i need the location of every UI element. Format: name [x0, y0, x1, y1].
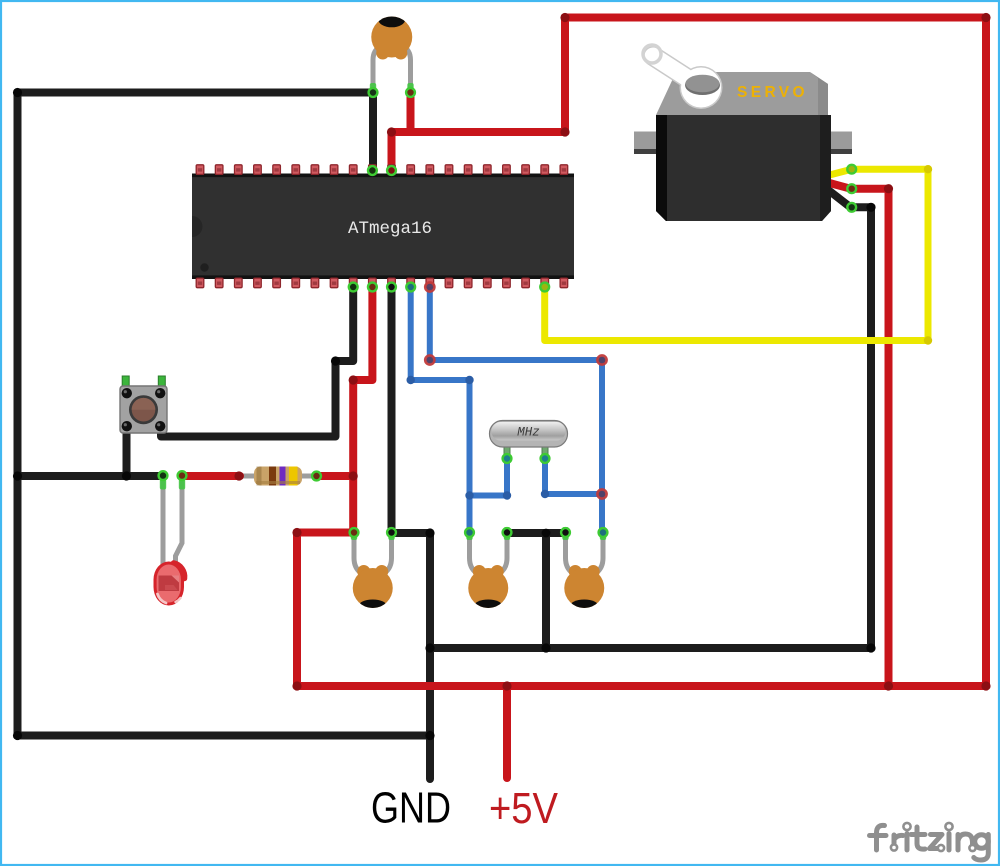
wire servo black	[430, 191, 871, 648]
wire GND left loop	[18, 93, 431, 736]
LED1 body	[154, 562, 185, 606]
wire button to IC pin	[161, 288, 353, 437]
capacitor C1 legs	[373, 46, 411, 93]
wire C3 C4 tee	[507, 529, 566, 537]
resistor R1 body	[254, 467, 302, 486]
capacitor C3 disc	[468, 565, 508, 614]
crystal Y1 legs	[504, 444, 548, 458]
wire crystal right branch	[545, 459, 602, 494]
wire IC pin VCC down	[353, 288, 372, 534]
wire +5V terminal	[503, 686, 511, 778]
wire +5V main loop	[297, 18, 986, 687]
wire resistor to +5V	[317, 472, 353, 480]
capacitor C4 legs	[566, 535, 604, 573]
wire XTAL1 blue	[411, 288, 470, 531]
IC U1 ATmega16 body	[192, 174, 574, 280]
wire crystal left branch	[470, 459, 508, 496]
LED1 legs	[163, 479, 182, 566]
svg-text:SERVO: SERVO	[737, 84, 808, 101]
IC U1 bottom pin row	[196, 278, 568, 288]
svg-text:+5V: +5V	[489, 784, 559, 833]
wire LED to resistor	[182, 472, 240, 480]
servo M1 horn	[643, 45, 723, 109]
capacitor C2 legs	[354, 535, 392, 573]
servo M1 right mounting tab	[820, 132, 852, 155]
servo M1 dark body	[656, 115, 831, 221]
pushbutton S1 body	[120, 386, 167, 433]
IC U1 top pin row	[196, 165, 568, 175]
svg-text:MHz: MHz	[517, 426, 540, 440]
servo M1 left mounting tab	[634, 132, 666, 155]
wire servo signal yellow	[545, 169, 928, 340]
svg-text:ATmega16: ATmega16	[348, 219, 432, 239]
wire button row	[18, 472, 162, 480]
wire XTAL2 blue	[430, 288, 602, 531]
wire servo red	[830, 183, 889, 686]
svg-text:GND: GND	[371, 784, 451, 833]
wire C2 to GND terminal	[392, 533, 431, 779]
servo M1 output shaft	[685, 75, 720, 95]
wire C1 to IC pin	[369, 93, 377, 171]
capacitor C2 disc	[353, 565, 393, 614]
crystal Y1 body	[490, 421, 568, 448]
LED1 leg sleeves	[160, 479, 185, 490]
servo M1 top housing	[656, 72, 828, 115]
capacitor C3 legs	[470, 535, 508, 573]
wire tee down	[542, 533, 550, 648]
capacitor C4 disc	[564, 565, 604, 614]
capacitor C1 leg sleeves	[370, 83, 414, 95]
wire C1 right leg down	[407, 93, 415, 133]
pushbutton S1 top legs	[122, 376, 165, 387]
wire IC pin to C2	[388, 288, 396, 531]
resistor R1 leads	[240, 474, 316, 479]
capacitor C1 disc	[371, 12, 412, 60]
overlap junction dots	[425, 282, 606, 498]
wire button left leg	[123, 428, 131, 476]
fritzing logo	[870, 823, 989, 860]
connection rings	[159, 88, 857, 537]
